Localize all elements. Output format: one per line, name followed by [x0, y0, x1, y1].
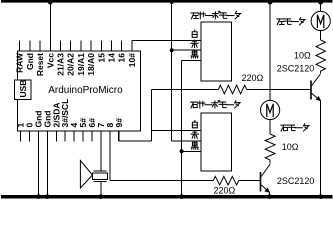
junction dot piezo/rail	[98, 194, 103, 199]
wire Q2 emitter to ground rail	[269, 192, 271, 195]
piezo element body	[93, 173, 108, 180]
piezo bottom plate	[94, 181, 107, 183]
pin 10# (top) tick	[131, 40, 133, 51]
pin 20/A2 (top) tick	[70, 40, 72, 51]
wire pin10 up	[131, 40, 133, 51]
wire power vertical	[171, 3, 173, 141]
motor M1 letter	[317, 15, 323, 28]
label red (left servo)	[191, 40, 198, 47]
label right motor (migi mootaa)	[281, 124, 309, 131]
svg-text:USB: USB	[18, 80, 28, 98]
pin 4 (bottom) tick	[73, 131, 75, 141]
Q1 collector	[312, 74, 321, 86]
resistor R4 220ohm zigzag	[213, 176, 239, 185]
junction dot Gnd2/rail	[45, 194, 50, 199]
svg-text:18/A0: 18/A0	[86, 53, 96, 76]
junction dot motor1/rail	[318, 0, 323, 5]
wire to right servo black	[182, 150, 201, 152]
pin RAW (top) tick	[19, 40, 21, 51]
Q2 emitter arrow	[264, 188, 270, 193]
pin 14 (top) tick	[111, 40, 113, 51]
junction dot left servo red	[170, 48, 174, 52]
transistor Q1 base bar	[310, 81, 312, 100]
pin 9# (bottom) tick	[118, 131, 120, 141]
wire R4 to Q2 base	[239, 180, 260, 182]
Q2 emitter	[261, 185, 269, 192]
transistor Q2 base bar	[260, 172, 262, 192]
junction dot Vcc/rail	[48, 0, 53, 5]
Q2 collector	[261, 164, 270, 177]
wire pin10 to left servo white	[132, 39, 201, 41]
wire R1 to Q1 collector	[320, 71, 322, 73]
speaker cone	[80, 161, 92, 189]
wire motor1 to R1	[320, 31, 322, 40]
pin 8 (bottom) tick	[109, 131, 111, 141]
motor M2 letter	[267, 104, 273, 117]
junction dot Q2 emitter/rail	[267, 194, 272, 199]
svg-text:10#: 10#	[127, 53, 137, 67]
junction dot ground vertical/rail	[179, 194, 184, 199]
junction dot Gnd1/rail	[36, 194, 41, 199]
Q1 emitter	[312, 94, 321, 101]
wire rail to motor1	[320, 3, 322, 12]
wire to right servo red	[172, 140, 201, 142]
ground rail (bottom)	[1, 195, 333, 199]
label white (right servo)	[192, 120, 197, 127]
wire rail to motor2	[269, 3, 271, 101]
svg-text:14: 14	[107, 53, 117, 63]
wire Q1 emitter to ground rail	[320, 101, 322, 195]
svg-text:10Ω: 10Ω	[282, 142, 299, 152]
junction dot motor2/rail	[268, 0, 273, 5]
wire R3 to Q1 base	[247, 89, 311, 91]
junction dot power vertical/rail	[170, 0, 174, 4]
wire left servo black	[182, 59, 201, 61]
svg-text:Vcc: Vcc	[45, 53, 55, 68]
wire pin9 down	[118, 131, 120, 141]
pin 1 (bottom) tick	[20, 131, 22, 141]
right servo box	[201, 113, 232, 171]
pin 6# (bottom) tick	[91, 131, 93, 141]
left servo box	[201, 22, 232, 81]
label left servo motor (hidari saabo mootaa)	[191, 11, 240, 19]
pin 16 (top) tick	[121, 40, 123, 51]
wire ground vertical	[181, 60, 183, 195]
wire motor2 to R2	[269, 120, 271, 134]
wire Gnd pin1 to ground rail	[38, 131, 40, 195]
resistor R2 10ohm zigzag	[265, 134, 275, 160]
motor M2 circle	[261, 100, 280, 119]
wire pin7 to piezo top	[100, 131, 102, 171]
pin Gnd (top) tick	[29, 40, 31, 51]
pin 2/SDA (bottom) tick	[55, 131, 57, 141]
pin 18/A0 (top) tick	[90, 40, 92, 51]
pin 3#/SCL (bottom) tick	[64, 131, 66, 141]
pin Vcc (top) tick	[49, 40, 51, 51]
svg-text:ArduinoProMicro: ArduinoProMicro	[48, 85, 123, 96]
wire pin9 right	[119, 140, 152, 142]
svg-text:21/A3: 21/A3	[56, 53, 66, 76]
power rail (top, +V)	[1, 0, 333, 3]
svg-text:Gnd: Gnd	[25, 53, 35, 70]
svg-text:16: 16	[117, 53, 127, 63]
svg-text:2SC2120: 2SC2120	[277, 176, 315, 186]
pin 7 (bottom) tick	[100, 131, 102, 141]
label black (left servo)	[191, 51, 198, 58]
junction dot right servo black	[180, 149, 184, 153]
svg-text:2SC2120: 2SC2120	[277, 63, 315, 73]
pin 0 (bottom) tick	[29, 131, 31, 141]
label red (right servo)	[191, 131, 198, 138]
junction dot Q1 emitter/rail	[318, 194, 323, 199]
wire to left servo red	[172, 49, 201, 51]
svg-text:RAW: RAW	[15, 52, 25, 73]
resistor R1 10ohm zigzag	[316, 40, 325, 71]
wire Vcc to power rail	[49, 3, 51, 52]
pin Gnd (bottom) tick	[46, 131, 48, 141]
svg-text:220Ω: 220Ω	[242, 73, 264, 83]
svg-text:Reset: Reset	[35, 53, 45, 76]
wire to right servo white	[152, 130, 201, 132]
wire pin9 riser	[151, 90, 153, 142]
piezo top plate	[94, 170, 107, 172]
pin 21/A3 (top) tick	[60, 40, 62, 51]
svg-text:10Ω: 10Ω	[294, 50, 311, 60]
label left motor (hidari mootaa)	[277, 18, 305, 25]
motor M1 circle	[311, 11, 330, 30]
resistor R3 220ohm zigzag	[218, 85, 246, 94]
USB connector box	[14, 80, 31, 100]
svg-text:19/A1: 19/A1	[76, 53, 86, 76]
svg-text:9#: 9#	[114, 118, 124, 128]
wire piezo to ground rail	[100, 182, 102, 195]
wire R2 to Q2 collector	[269, 160, 271, 164]
Q1 emitter arrow	[316, 96, 322, 101]
wire pin8 run to R4	[110, 180, 213, 182]
svg-text:15: 15	[96, 53, 106, 63]
label right servo motor (migi saabo mootaa)	[191, 100, 240, 108]
wire Gnd pin2 to ground rail	[46, 131, 48, 195]
wire riser to R3	[152, 89, 219, 91]
pin Gnd (bottom) tick	[38, 131, 40, 141]
pin 5# (bottom) tick	[82, 131, 84, 141]
pin 19/A1 (top) tick	[80, 40, 82, 51]
pin Reset (top) tick	[39, 40, 41, 51]
Arduino Pro Micro U1 body	[18, 51, 141, 131]
pin 15 (top) tick	[100, 40, 102, 51]
wire pin8 down	[109, 131, 111, 181]
label white (left servo)	[192, 30, 197, 37]
svg-text:220Ω: 220Ω	[214, 185, 236, 195]
svg-text:20/A2: 20/A2	[66, 53, 76, 76]
label black (right servo)	[191, 142, 198, 149]
